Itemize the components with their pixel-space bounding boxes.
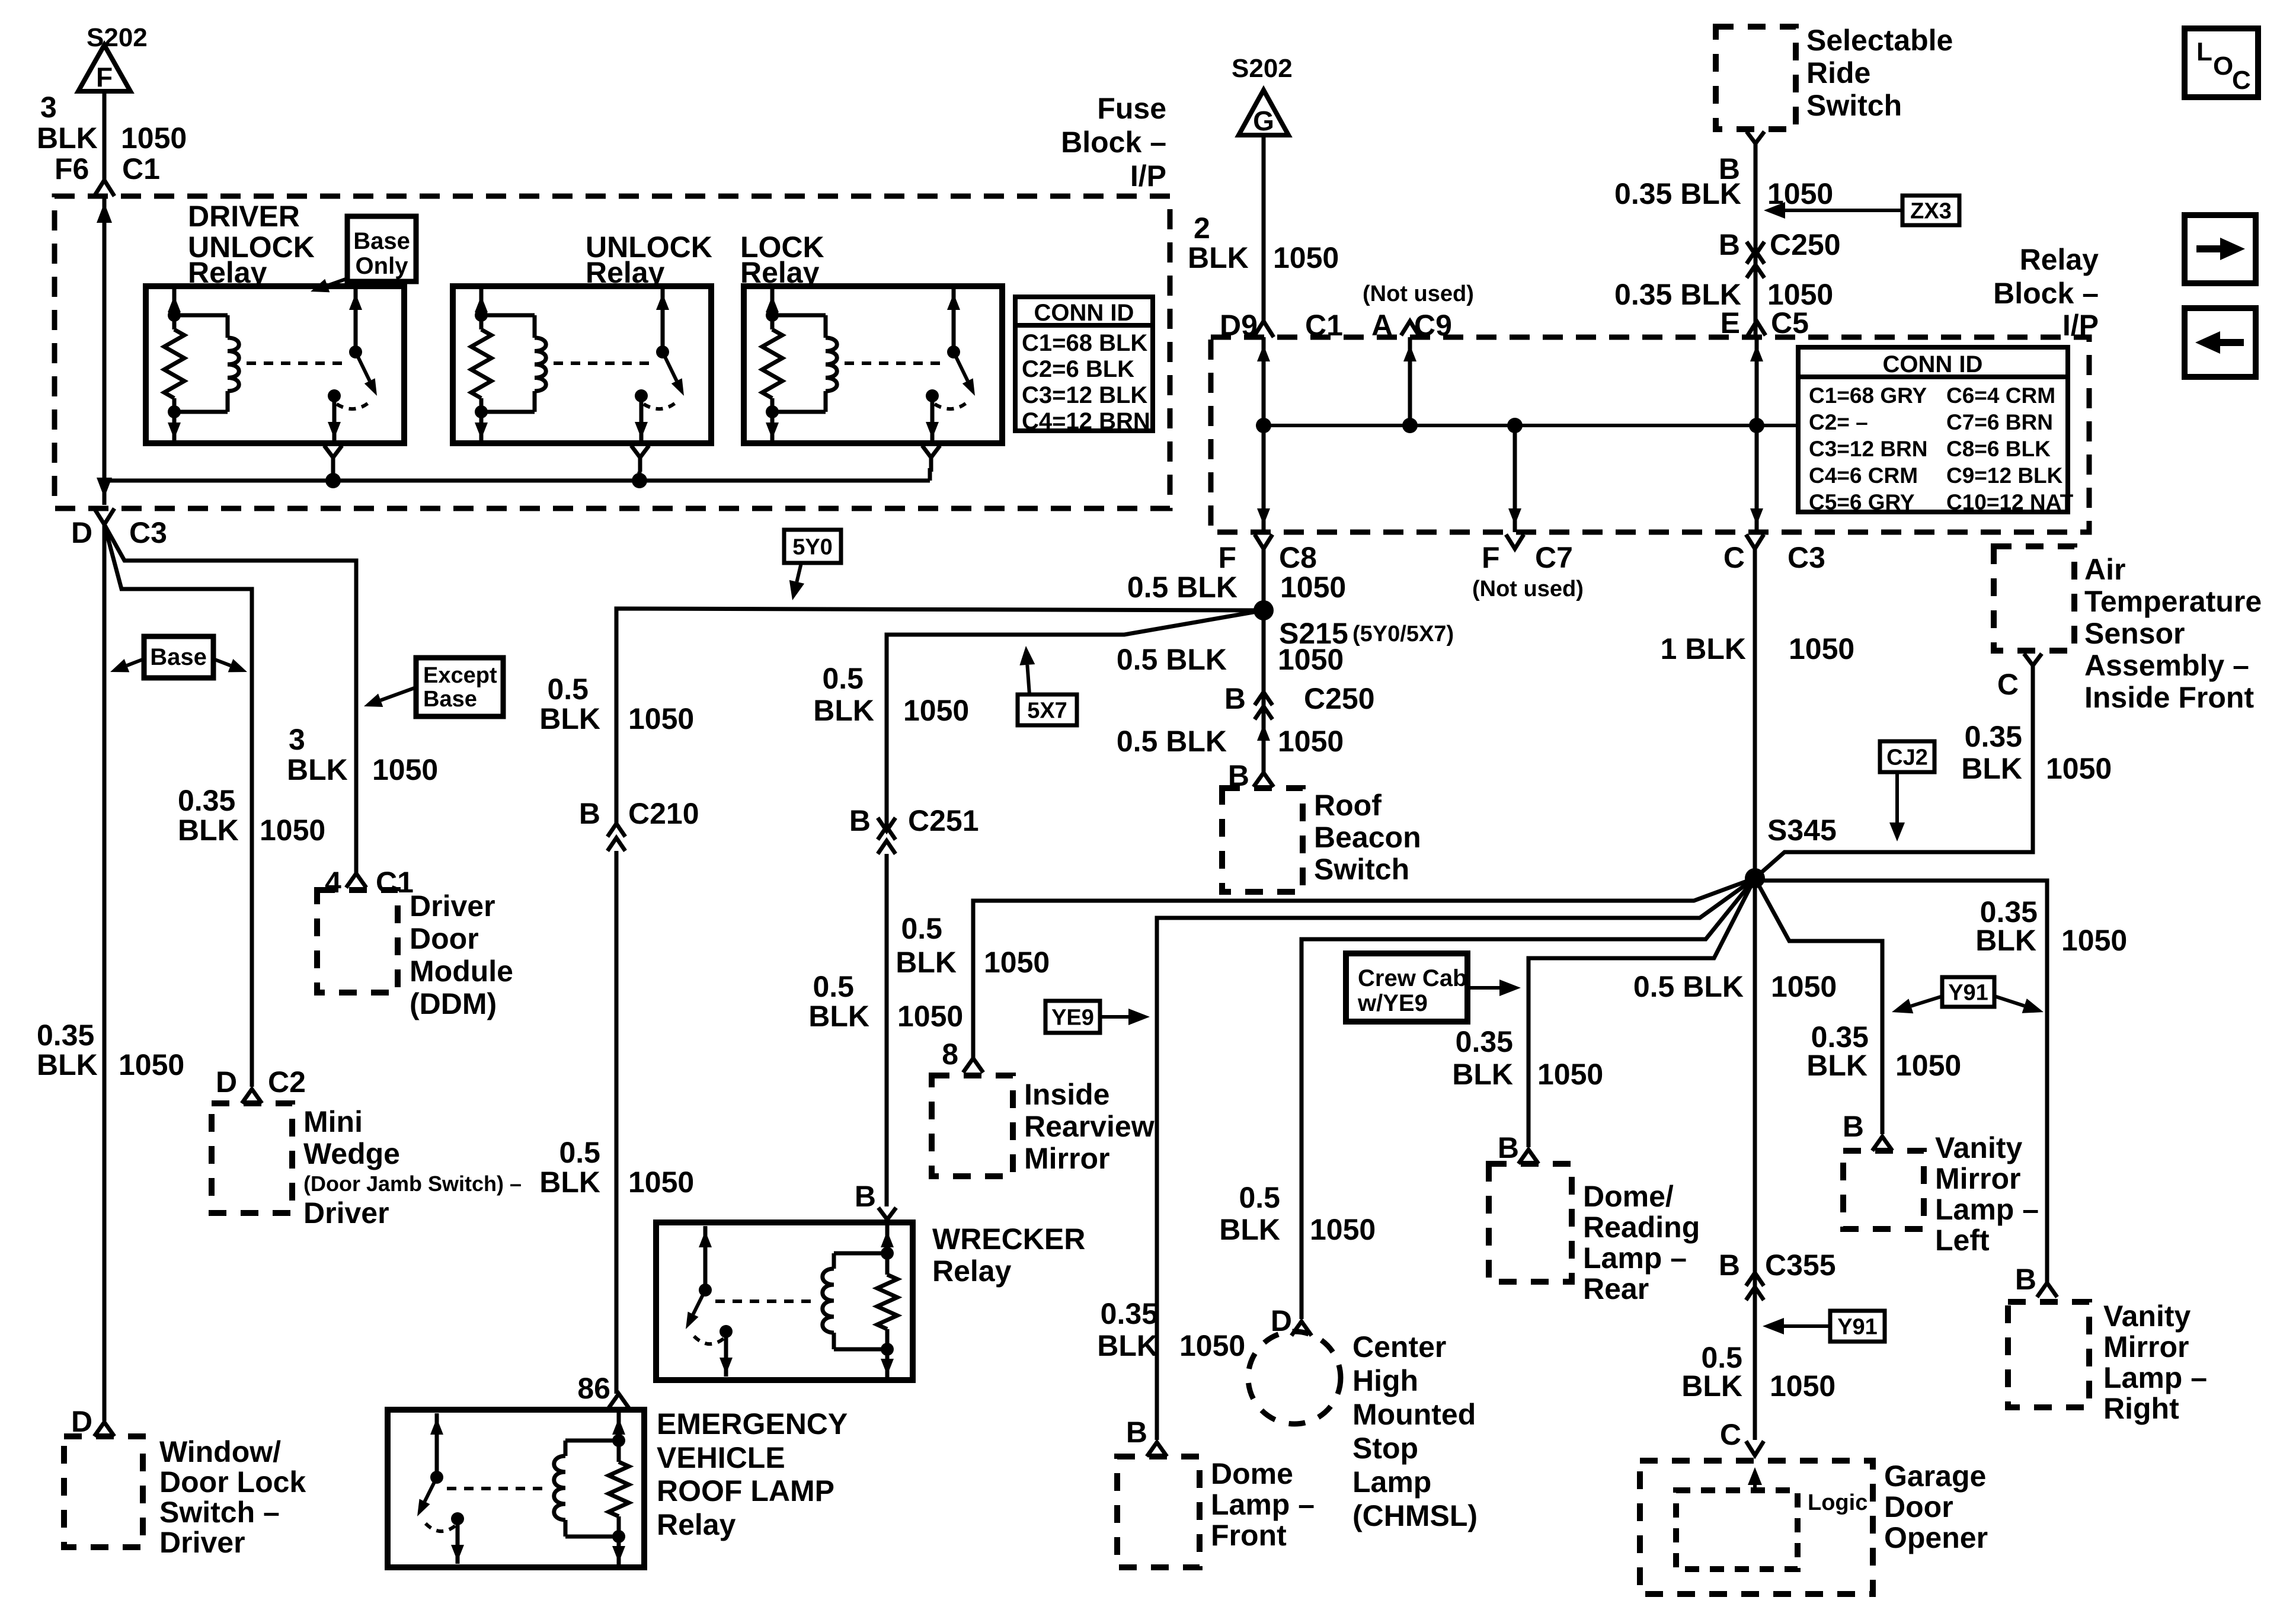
svg-text:0.5 BLK: 0.5 BLK — [1117, 643, 1227, 676]
svg-text:Relay: Relay — [932, 1254, 1012, 1288]
wire relay2 output to bus — [638, 472, 642, 481]
svg-text:2: 2 — [1194, 212, 1210, 245]
wire C3 down to S345 — [1753, 549, 1757, 878]
relay resistor lead — [885, 1225, 890, 1275]
svg-text:C210: C210 — [628, 797, 699, 830]
svg-text:Beacon: Beacon — [1314, 821, 1421, 854]
label box Except Base with arrow — [416, 658, 503, 716]
component Garage Door Opener — [1640, 1461, 1873, 1594]
pin B of selectable ride switch — [1747, 132, 1764, 143]
relay coil lead — [172, 289, 177, 329]
relay UNLOCK box — [453, 286, 711, 443]
svg-text:S202: S202 — [87, 23, 148, 52]
svg-text:0.35: 0.35 — [1965, 720, 2022, 753]
label box Crew Cab w/YE9 — [1346, 953, 1467, 1022]
wire S345 to vanity mirror lamp right — [1755, 881, 2047, 1283]
svg-text:Reading: Reading — [1583, 1211, 1700, 1244]
relay dashed actuator link — [715, 1299, 817, 1303]
relay resistor — [762, 329, 782, 398]
svg-text:I/P: I/P — [2062, 309, 2099, 342]
wire D/C3 down to window/door lock switch — [103, 524, 107, 1421]
svg-text:1050: 1050 — [119, 1048, 184, 1081]
svg-text:O: O — [2213, 52, 2233, 81]
svg-text:Module: Module — [410, 955, 513, 988]
svg-text:Door Lock: Door Lock — [159, 1465, 306, 1499]
svg-text:DRIVER: DRIVER — [188, 200, 300, 233]
svg-text:S202: S202 — [1232, 54, 1293, 83]
svg-text:D: D — [216, 1065, 237, 1099]
circuit option ZX3 — [1902, 196, 1959, 225]
svg-text:0.5: 0.5 — [901, 912, 942, 945]
svg-text:BLK: BLK — [37, 121, 98, 155]
connector E/C5 — [1748, 321, 1766, 335]
CONN ID table (relay block) — [1798, 347, 2068, 512]
svg-text:C: C — [1723, 541, 1745, 574]
svg-text:0.35: 0.35 — [1456, 1025, 1513, 1058]
svg-text:C355: C355 — [1765, 1249, 1836, 1282]
svg-text:(Not used): (Not used) — [1472, 577, 1584, 601]
svg-text:L: L — [2196, 37, 2212, 66]
relay switch — [952, 289, 956, 352]
svg-text:Switch –: Switch – — [159, 1496, 280, 1529]
wire S202 G down to relay block — [1262, 135, 1266, 321]
relay block I/P dashed outline — [1211, 337, 2089, 532]
svg-text:Driver: Driver — [159, 1526, 245, 1559]
svg-text:Garage: Garage — [1884, 1459, 1986, 1493]
wire S345 to vanity mirror lamp left — [1755, 878, 1882, 1134]
svg-text:C250: C250 — [1770, 228, 1841, 261]
node on relay-block bus — [1402, 418, 1418, 433]
svg-text:4: 4 — [325, 866, 341, 899]
wire S345 to air temperature sensor — [1755, 665, 2033, 878]
relay dashed actuator link — [447, 1487, 549, 1490]
svg-text:EMERGENCY: EMERGENCY — [657, 1407, 848, 1441]
relay resistor — [877, 1275, 897, 1329]
svg-text:1050: 1050 — [1278, 725, 1344, 758]
svg-text:Dome/: Dome/ — [1583, 1180, 1674, 1213]
svg-text:1050: 1050 — [2061, 924, 2127, 957]
svg-text:Block –: Block – — [1993, 277, 2099, 310]
wire relay1 output to bus — [331, 472, 335, 481]
svg-text:BLK: BLK — [896, 946, 957, 979]
svg-text:High: High — [1352, 1364, 1418, 1397]
svg-text:Driver: Driver — [303, 1196, 389, 1230]
relay dashed actuator link — [247, 361, 347, 365]
component Dome/Reading Lamp - Rear — [1489, 1164, 1572, 1282]
svg-text:(CHMSL): (CHMSL) — [1352, 1499, 1478, 1532]
svg-text:Rearview: Rearview — [1024, 1110, 1155, 1143]
svg-text:ZX3: ZX3 — [1910, 199, 1952, 223]
svg-text:BLK: BLK — [539, 1166, 600, 1199]
svg-text:1050: 1050 — [628, 1166, 694, 1199]
svg-text:1050: 1050 — [1278, 643, 1344, 676]
svg-text:C8: C8 — [1279, 541, 1317, 574]
svg-text:Only: Only — [356, 253, 409, 279]
svg-text:1050: 1050 — [1280, 571, 1346, 604]
relay switch — [354, 289, 358, 352]
connector B/C210 — [607, 824, 625, 837]
svg-text:86: 86 — [577, 1372, 610, 1405]
component Mini Wedge (Door Jamb Switch) - Driver — [212, 1103, 292, 1213]
relay LOCK box — [744, 286, 1002, 443]
svg-text:BLK: BLK — [1188, 241, 1249, 274]
relay block internal bus — [1262, 337, 1266, 532]
svg-text:B: B — [1224, 682, 1246, 715]
label box Base with arrows — [144, 636, 213, 678]
svg-text:1050: 1050 — [2046, 752, 2112, 785]
relay coil — [772, 313, 826, 318]
relay EMERGENCY VEHICLE ROOF LAMP box — [388, 1410, 644, 1567]
svg-text:Mirror: Mirror — [1935, 1162, 2020, 1195]
svg-text:Relay: Relay — [657, 1508, 736, 1541]
svg-text:Sensor: Sensor — [2084, 617, 2185, 650]
svg-text:CJ2: CJ2 — [1886, 745, 1928, 770]
svg-text:(5Y0/5X7): (5Y0/5X7) — [1352, 622, 1454, 646]
svg-text:Window/: Window/ — [159, 1435, 281, 1468]
CONN ID table (fuse block) — [1015, 297, 1153, 431]
svg-text:Inside: Inside — [1024, 1078, 1109, 1111]
wire S215 down to roof beacon switch — [1262, 610, 1266, 773]
svg-text:0.5: 0.5 — [813, 970, 854, 1003]
svg-text:C5: C5 — [1771, 306, 1809, 340]
svg-text:1050: 1050 — [1537, 1058, 1603, 1091]
svg-text:Air: Air — [2084, 553, 2125, 586]
svg-text:Opener: Opener — [1884, 1521, 1988, 1554]
fuse block I/P dashed outline — [55, 196, 1170, 508]
svg-text:C3: C3 — [129, 516, 167, 549]
wire from S202 F down to fuse block — [103, 91, 107, 180]
svg-text:B: B — [2015, 1263, 2036, 1296]
component Roof Beacon Switch — [1222, 788, 1303, 892]
lamp CHMSL dashed circle — [1248, 1331, 1341, 1424]
wire S345 down to garage door opener — [1753, 878, 1757, 1440]
component Dome Lamp - Front — [1117, 1457, 1200, 1567]
connector D9/C1 — [1253, 321, 1274, 337]
svg-text:C5=6 GRY: C5=6 GRY — [1809, 490, 1915, 514]
svg-text:Left: Left — [1935, 1224, 1990, 1257]
svg-text:B: B — [1719, 228, 1740, 261]
svg-text:Driver: Driver — [410, 889, 495, 923]
ground bus wire inside fuse block — [104, 479, 930, 483]
svg-text:1050: 1050 — [1789, 632, 1854, 665]
svg-text:C9=12 BLK: C9=12 BLK — [1946, 463, 2063, 488]
svg-text:S345: S345 — [1767, 814, 1837, 847]
svg-text:0.5: 0.5 — [822, 662, 864, 695]
circuit label 5Y0 — [784, 530, 841, 563]
svg-text:Temperature: Temperature — [2084, 585, 2262, 618]
svg-text:0.35: 0.35 — [37, 1019, 94, 1052]
svg-text:BLK: BLK — [1219, 1213, 1280, 1246]
svg-text:BLK: BLK — [37, 1048, 98, 1081]
wire C251 down to wrecker relay B — [885, 854, 889, 1206]
svg-text:C7=6 BRN: C7=6 BRN — [1946, 410, 2053, 434]
splice S215 — [1253, 600, 1274, 620]
splice S345 — [1745, 868, 1765, 888]
svg-text:C2: C2 — [268, 1065, 306, 1099]
svg-text:D: D — [71, 1405, 92, 1438]
relay resistor — [164, 329, 184, 398]
svg-text:C3=12 BLK: C3=12 BLK — [1022, 382, 1147, 408]
svg-text:C8=6 BLK: C8=6 BLK — [1946, 437, 2051, 461]
svg-text:Right: Right — [2103, 1392, 2179, 1425]
svg-text:Y91: Y91 — [1948, 980, 1988, 1005]
legend arrow right box — [2185, 215, 2256, 283]
svg-text:Mirror: Mirror — [1024, 1142, 1109, 1175]
svg-text:Ride: Ride — [1806, 56, 1870, 89]
svg-text:Roof: Roof — [1314, 789, 1382, 822]
relay output pin connector — [324, 446, 342, 457]
svg-text:Assembly –: Assembly – — [2084, 649, 2249, 682]
svg-text:Vanity: Vanity — [1935, 1131, 2022, 1164]
circuit option Y91 (garage) — [1830, 1311, 1885, 1342]
svg-text:5Y0: 5Y0 — [792, 534, 833, 559]
svg-text:Rear: Rear — [1583, 1272, 1649, 1305]
connector B/C251 — [878, 818, 896, 831]
wire S345 to dome lamp front — [1157, 878, 1755, 1440]
svg-text:Lamp –: Lamp – — [1935, 1193, 2039, 1226]
svg-text:0.35: 0.35 — [178, 784, 235, 817]
relay coil lead — [479, 289, 484, 329]
circuit label 5X7 — [1018, 694, 1077, 725]
svg-text:C9: C9 — [1414, 309, 1452, 342]
svg-text:C1=68 BLK: C1=68 BLK — [1022, 330, 1147, 356]
svg-text:Crew Cab: Crew Cab — [1358, 965, 1467, 991]
bus junction node — [325, 473, 341, 488]
svg-text:1050: 1050 — [1770, 1369, 1835, 1403]
wire S345 to CHMSL — [1302, 878, 1755, 1319]
component Selectable Ride Switch — [1716, 27, 1796, 129]
svg-text:C251: C251 — [908, 804, 979, 837]
svg-text:1050: 1050 — [121, 121, 187, 155]
svg-text:B: B — [855, 1180, 876, 1213]
svg-text:Front: Front — [1211, 1519, 1287, 1552]
svg-text:BLK: BLK — [1975, 924, 2036, 957]
wire C8 to S215 — [1262, 549, 1266, 610]
svg-text:Inside Front: Inside Front — [2084, 681, 2254, 714]
component Inside Rearview Mirror — [932, 1076, 1013, 1176]
svg-text:BLK: BLK — [808, 1000, 869, 1033]
component Vanity Mirror Lamp - Left — [1843, 1151, 1924, 1229]
svg-text:(Door Jamb Switch) –: (Door Jamb Switch) – — [303, 1172, 522, 1196]
wire selectable ride switch to C250 — [1754, 158, 1758, 335]
svg-text:BLK: BLK — [539, 702, 600, 735]
svg-text:1050: 1050 — [1273, 241, 1339, 274]
svg-text:I/P: I/P — [1130, 159, 1166, 193]
wire E/C5 drop inside relay block — [1755, 337, 1759, 532]
node on relay-block bus — [1507, 418, 1523, 433]
svg-text:BLK: BLK — [1452, 1058, 1513, 1091]
svg-text:C4=12 BRN: C4=12 BRN — [1022, 408, 1150, 434]
svg-text:0.5: 0.5 — [1239, 1181, 1280, 1214]
svg-text:3: 3 — [40, 91, 57, 124]
relay DRIVER UNLOCK box — [146, 286, 404, 443]
circuit label CJ2 — [1880, 741, 1934, 772]
svg-text:0.5: 0.5 — [559, 1136, 600, 1169]
svg-text:E: E — [1721, 306, 1740, 340]
svg-text:Block –: Block – — [1061, 126, 1166, 159]
wire 5X7 from S215 to C251 drop — [887, 610, 1264, 826]
svg-text:C3=12 BRN: C3=12 BRN — [1809, 437, 1928, 461]
svg-text:Mini: Mini — [303, 1105, 363, 1138]
svg-text:B: B — [579, 797, 600, 830]
svg-text:Lamp –: Lamp – — [1583, 1241, 1687, 1275]
svg-text:D: D — [71, 516, 92, 549]
svg-text:WRECKER: WRECKER — [932, 1222, 1085, 1256]
svg-text:BLK: BLK — [287, 753, 348, 786]
connector F/C8 below relay block — [1255, 534, 1272, 549]
svg-text:F: F — [96, 62, 113, 92]
svg-text:C2= –: C2= – — [1809, 410, 1868, 434]
svg-text:Door: Door — [1884, 1490, 1953, 1523]
svg-text:ROOF LAMP: ROOF LAMP — [657, 1474, 834, 1507]
svg-text:(DDM): (DDM) — [410, 987, 497, 1020]
relay switch — [703, 1226, 708, 1290]
svg-text:Mirror: Mirror — [2103, 1330, 2189, 1363]
svg-text:C7: C7 — [1535, 541, 1573, 574]
svg-text:Fuse: Fuse — [1097, 92, 1166, 125]
svg-text:Mounted: Mounted — [1352, 1398, 1476, 1431]
svg-text:3: 3 — [289, 723, 305, 756]
svg-text:F: F — [1218, 541, 1236, 574]
svg-text:Y91: Y91 — [1837, 1314, 1878, 1339]
component Window/Door Lock Switch - Driver — [64, 1436, 143, 1547]
svg-text:0.5 BLK: 0.5 BLK — [1127, 571, 1237, 604]
svg-text:Lamp –: Lamp – — [2103, 1361, 2207, 1394]
component Air Temperature Sensor Assembly - Inside Front — [1994, 546, 2074, 651]
pin B roof beacon switch — [1253, 773, 1274, 787]
svg-text:B: B — [1498, 1131, 1519, 1164]
wire A/C9 (not used) — [1408, 337, 1412, 425]
svg-text:Lamp: Lamp — [1352, 1465, 1431, 1499]
svg-text:1 BLK: 1 BLK — [1661, 632, 1746, 665]
svg-text:C2=6 BLK: C2=6 BLK — [1022, 356, 1134, 382]
relay coil — [564, 1441, 568, 1456]
svg-text:B: B — [1719, 1249, 1740, 1282]
relay coil — [174, 313, 228, 318]
svg-text:C6=4 CRM: C6=4 CRM — [1946, 383, 2055, 408]
svg-text:0.5 BLK: 0.5 BLK — [1633, 970, 1744, 1003]
svg-text:BLK: BLK — [813, 694, 874, 727]
label box Base Only — [347, 216, 416, 281]
svg-text:1050: 1050 — [984, 946, 1050, 979]
relay coil lead — [770, 289, 775, 329]
svg-text:(Not used): (Not used) — [1363, 281, 1474, 306]
svg-text:0.5 BLK: 0.5 BLK — [1117, 725, 1227, 758]
svg-text:CONN ID: CONN ID — [1034, 300, 1134, 326]
wire D/C3 to mini wedge — [104, 524, 252, 1087]
svg-text:BLK: BLK — [1097, 1329, 1158, 1362]
wire F/C7 (not used) — [1513, 425, 1517, 532]
svg-text:BLK: BLK — [1681, 1369, 1742, 1403]
connector B/C355 — [1746, 1273, 1764, 1286]
svg-text:B: B — [1843, 1110, 1864, 1143]
svg-text:Except: Except — [423, 663, 497, 688]
connector F6/C1 at fuse block boundary — [94, 180, 114, 196]
svg-text:Switch: Switch — [1314, 853, 1409, 886]
relay output pin connector — [631, 446, 649, 457]
LOC legend box — [2185, 28, 2258, 97]
svg-text:C4=6 CRM: C4=6 CRM — [1809, 463, 1918, 488]
svg-text:C3: C3 — [1787, 541, 1825, 574]
svg-text:B: B — [849, 804, 871, 837]
connector B/C250 — [1747, 242, 1764, 255]
svg-text:Switch: Switch — [1806, 89, 1902, 122]
svg-text:D: D — [1271, 1304, 1292, 1337]
garage door opener logic block — [1676, 1490, 1798, 1569]
svg-text:G: G — [1253, 105, 1274, 136]
svg-text:F: F — [1482, 541, 1500, 574]
svg-text:F6: F6 — [55, 152, 89, 185]
svg-text:Base: Base — [353, 228, 410, 254]
svg-text:C1: C1 — [122, 152, 160, 185]
svg-text:5X7: 5X7 — [1027, 698, 1067, 723]
relay resistor lead — [617, 1412, 621, 1462]
svg-text:1050: 1050 — [1895, 1049, 1961, 1082]
svg-text:YE9: YE9 — [1051, 1005, 1094, 1030]
svg-text:Base: Base — [150, 644, 207, 670]
svg-text:1050: 1050 — [897, 1000, 963, 1033]
relay switch — [661, 289, 665, 352]
svg-text:Vanity: Vanity — [2103, 1299, 2191, 1333]
wire C210 down to emergency relay 86 — [615, 851, 619, 1394]
wire D/C3 to DDM — [104, 524, 356, 873]
svg-text:1050: 1050 — [1771, 970, 1837, 1003]
relay dashed actuator link — [845, 361, 945, 365]
svg-text:C10=12 NAT: C10=12 NAT — [1946, 490, 2074, 514]
relay WRECKER box — [656, 1222, 913, 1380]
relay dashed actuator link — [554, 361, 654, 365]
svg-text:C250: C250 — [1304, 682, 1375, 715]
svg-text:BLK: BLK — [178, 814, 239, 847]
svg-text:BLK: BLK — [1806, 1049, 1868, 1082]
svg-text:1050: 1050 — [372, 753, 438, 786]
node on relay-block bus — [1749, 418, 1764, 433]
svg-text:Relay: Relay — [2020, 243, 2099, 276]
circuit option YE9 — [1045, 1001, 1100, 1033]
svg-text:1050: 1050 — [628, 702, 694, 735]
svg-text:CONN ID: CONN ID — [1883, 351, 1983, 377]
svg-text:C: C — [1997, 668, 2019, 701]
legend arrow left box — [2185, 308, 2256, 377]
relay coil — [481, 313, 535, 318]
relay output pin connector — [922, 446, 940, 457]
svg-text:8: 8 — [942, 1038, 958, 1071]
wire S345 to dome/reading lamp rear — [1528, 878, 1755, 1147]
svg-text:Center: Center — [1352, 1330, 1446, 1363]
svg-text:0.35 BLK: 0.35 BLK — [1614, 177, 1741, 210]
svg-text:C1=68 GRY: C1=68 GRY — [1809, 383, 1927, 408]
svg-text:C: C — [1720, 1418, 1741, 1451]
svg-text:C: C — [2232, 66, 2251, 95]
svg-text:1050: 1050 — [1310, 1213, 1376, 1246]
wire fuse-block left vertical to ground bus — [103, 196, 107, 505]
svg-text:0.5: 0.5 — [547, 673, 589, 706]
svg-text:0.35: 0.35 — [1101, 1297, 1158, 1330]
connector B/C250 (roof) — [1255, 692, 1272, 705]
bus junction node — [632, 473, 647, 488]
svg-text:Wedge: Wedge — [303, 1137, 400, 1170]
relay switch — [435, 1413, 439, 1477]
svg-text:w/YE9: w/YE9 — [1357, 990, 1428, 1016]
svg-text:Dome: Dome — [1211, 1457, 1293, 1490]
connector D/C3 at fuse block bottom — [94, 508, 114, 524]
svg-text:1050: 1050 — [903, 694, 969, 727]
component Vanity Mirror Lamp - Right — [2008, 1302, 2089, 1407]
component Driver Door Module (DDM) — [317, 890, 398, 993]
relay resistor — [609, 1462, 629, 1516]
svg-text:A: A — [1371, 309, 1393, 342]
svg-text:1050: 1050 — [260, 814, 325, 847]
